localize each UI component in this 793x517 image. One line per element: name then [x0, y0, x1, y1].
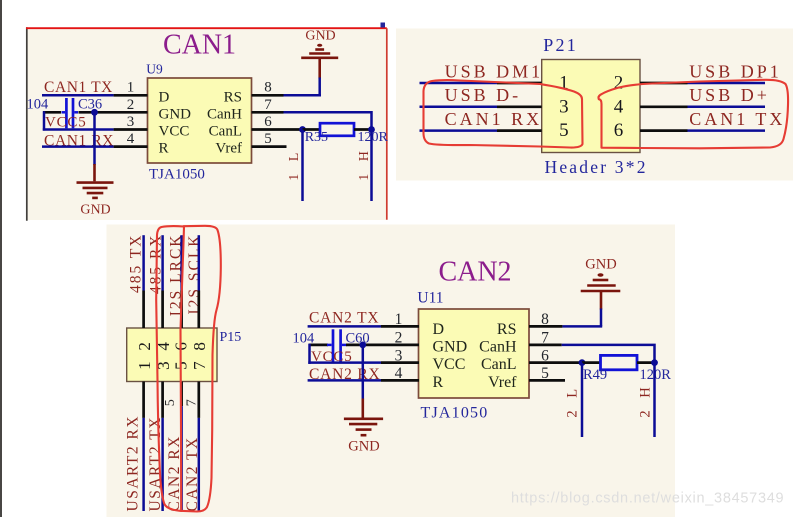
wire VCC corner vertical: [43, 111, 46, 130]
resistor R49 body: [601, 355, 638, 369]
pin 5 wire (P21): [497, 129, 542, 132]
wire 2_L vertical: [581, 363, 584, 437]
wire cap left stub (C60): [327, 344, 332, 347]
wire 485_TX vertical: [142, 235, 145, 290]
junction CanH / resistor right: [368, 126, 375, 133]
svg-text:I2S SCLK: I2S SCLK: [186, 234, 203, 315]
ground bar medium (CAN2 top): [587, 284, 616, 287]
svg-text:GND: GND: [585, 257, 616, 273]
pin wire col1 top (P15): [142, 291, 145, 329]
wire VCC corner vertical (CAN2): [308, 344, 311, 364]
wire I2S_SCLK vertical: [198, 235, 201, 290]
svg-text:3: 3: [559, 96, 569, 117]
svg-text:GND: GND: [433, 339, 468, 356]
connector P15 body: [127, 328, 217, 382]
red annotation loop right (P21 pins 4,6 and labels USB_D+, CAN1_TX): [598, 80, 788, 149]
pin 1 wire: [114, 94, 148, 97]
pin 4 wire: [114, 145, 148, 148]
svg-text:VCC: VCC: [433, 356, 466, 373]
wire 485_RX vertical: [161, 235, 164, 290]
capacitor C36 left plate: [65, 98, 68, 128]
ground bar medium (top): [309, 52, 330, 55]
ground bar 3 (CAN2): [356, 428, 372, 431]
svg-text:R35: R35: [305, 130, 328, 145]
pin 4 wire (U11): [381, 379, 419, 382]
wire CanH net (CAN2): [562, 345, 655, 363]
IC U9 TJA1050 body: [148, 78, 252, 163]
pin 6 wire CanL: [252, 128, 303, 131]
svg-text:CanH: CanH: [479, 339, 517, 356]
svg-text:5: 5: [163, 399, 178, 406]
ground bar 4: [92, 197, 98, 200]
ground bar wide (top): [301, 56, 338, 59]
pin 8 wire (U11): [529, 325, 562, 328]
wire 1_H vertical: [370, 130, 373, 202]
bottom fragment background: [107, 225, 676, 517]
resistor R49 left pin: [582, 361, 601, 364]
svg-text:7: 7: [190, 361, 209, 370]
svg-text:R: R: [433, 374, 444, 391]
wire ground to pin 8 vertical: [318, 78, 321, 96]
pin wire col2 bottom (P15): [161, 382, 164, 418]
wire GND net to pin 2 left part (U11): [309, 344, 328, 347]
pin 8 wire: [252, 94, 284, 97]
wire ground to pin 8 horizontal: [284, 94, 322, 97]
svg-text:GND: GND: [348, 438, 379, 454]
svg-text:3: 3: [127, 114, 135, 130]
ground dot (CAN2 top, inverted symbol): [598, 273, 604, 276]
capacitor C60 right plate: [339, 329, 342, 361]
svg-text:1 L: 1 L: [287, 148, 302, 181]
wire USB_D+: [688, 106, 766, 109]
svg-text:P15: P15: [220, 330, 242, 345]
svg-text:USB D+: USB D+: [689, 85, 770, 105]
pin 4 wire (P21): [640, 105, 688, 108]
svg-text:U9: U9: [146, 62, 163, 77]
wire CAN1_TX (P21): [688, 129, 766, 132]
CAN1 selection box red top border: [26, 27, 387, 29]
svg-text:Vref: Vref: [215, 141, 242, 157]
ground dot (CAN1 top, inverted symbol): [317, 44, 322, 47]
svg-text:8: 8: [190, 342, 209, 351]
svg-text:CAN1: CAN1: [163, 30, 236, 61]
ground stem (CAN2 top): [600, 292, 603, 310]
CAN1 fragment background: [28, 29, 387, 220]
svg-text:R49: R49: [583, 367, 607, 383]
svg-text:D: D: [433, 321, 445, 338]
svg-text:USART2 RX: USART2 RX: [124, 415, 141, 512]
svg-text:U11: U11: [417, 290, 443, 307]
svg-text:CAN2 TX: CAN2 TX: [309, 309, 379, 326]
IC U11 TJA1050 body: [419, 309, 530, 398]
svg-text:7: 7: [185, 399, 200, 406]
svg-text:5: 5: [559, 120, 569, 141]
ground bar small (CAN2 top): [593, 279, 609, 282]
pin 3 wire: [114, 128, 148, 131]
wire 2_H vertical: [653, 363, 656, 437]
wire ground to pin 8 vertical (CAN2): [600, 309, 603, 327]
svg-text:P21: P21: [543, 35, 578, 55]
wire CAN2_TX vertical (P15): [198, 418, 201, 511]
svg-text:D: D: [159, 89, 170, 105]
pin 1 wire (U11): [381, 325, 419, 328]
CAN1 selection box left border: [26, 27, 28, 221]
svg-text:7: 7: [264, 97, 272, 113]
svg-text:2: 2: [127, 97, 135, 113]
svg-text:Header 3*2: Header 3*2: [545, 157, 648, 177]
svg-text:RS: RS: [224, 89, 242, 105]
svg-text:5: 5: [264, 131, 272, 147]
ground bar wide (CAN2 top): [581, 290, 621, 293]
svg-text:4: 4: [127, 131, 135, 147]
svg-text:CanL: CanL: [209, 124, 242, 140]
pin 3 wire (P21): [497, 105, 542, 108]
pin 7 wire CanH: [252, 111, 284, 114]
wire CanH net: [284, 112, 372, 129]
ground stem (CAN1 bottom): [93, 164, 96, 181]
wire USB_D-: [420, 106, 498, 109]
svg-text:USB DP1: USB DP1: [689, 61, 782, 81]
resistor R35 right pin: [354, 128, 372, 131]
svg-text:RS: RS: [497, 321, 517, 338]
junction CanL / resistor left: [299, 126, 306, 133]
svg-text:CAN1 TX: CAN1 TX: [689, 109, 785, 129]
svg-text:6: 6: [614, 120, 624, 141]
wire CAN1_RX net: [42, 145, 114, 148]
pin wire col2 top (P15): [161, 291, 164, 329]
wire VCC net row3: [43, 128, 114, 131]
wire junction down to ground: [93, 112, 96, 165]
svg-text:USB DM1: USB DM1: [445, 61, 544, 81]
ground stem (CAN2 bottom): [361, 399, 364, 418]
wire ground to pin 8 horizontal (CAN2): [562, 325, 602, 328]
pin 5 wire Vref stub (U11): [529, 379, 565, 382]
svg-text:CAN2: CAN2: [438, 257, 511, 288]
svg-text:C36: C36: [78, 97, 102, 113]
svg-text:4: 4: [614, 96, 624, 117]
CAN1 selection box red right border: [386, 28, 388, 220]
svg-text:CAN1 RX: CAN1 RX: [445, 109, 543, 129]
pin 6 wire (P21): [640, 129, 688, 132]
wire USART2_TX vertical: [161, 418, 164, 511]
svg-text:2 L: 2 L: [565, 384, 581, 417]
pin wire col3 top (P15): [180, 291, 183, 329]
pin 7 wire CanH (U11): [529, 344, 562, 347]
svg-text:GND: GND: [159, 106, 192, 122]
wire CAN2_RX net: [308, 379, 381, 382]
wire GND net to pin 2 left part: [43, 111, 61, 114]
svg-text:8: 8: [264, 80, 272, 96]
pin 6 wire CanL (U11): [529, 361, 582, 364]
junction CanL / resistor left (CAN2): [579, 359, 586, 366]
capacitor C60 left plate: [332, 329, 335, 361]
ground bar 4 (CAN2): [361, 434, 367, 437]
red annotation inner stroke (P15 hugging column 3): [181, 227, 185, 512]
svg-text:VCC5: VCC5: [45, 115, 87, 131]
blue artifact top-right of CAN1 box: [381, 23, 386, 28]
wire USB_DP1: [688, 82, 766, 85]
svg-text:2: 2: [614, 73, 624, 94]
connector P21 body: [542, 60, 640, 153]
wire VCC net row3 (CAN2): [308, 361, 381, 364]
svg-text:TJA1050: TJA1050: [421, 405, 489, 422]
pin wire col1 bottom (P15): [142, 382, 145, 418]
svg-text:1: 1: [127, 80, 135, 96]
pin 2 wire (P21): [640, 82, 688, 85]
resistor R35 left pin: [303, 128, 321, 131]
pin 5 wire Vref stub: [252, 145, 287, 148]
wire pin 2 to junction: [79, 111, 148, 114]
pin wire col3 bottom (P15): [180, 382, 183, 407]
junction on GND net: [91, 109, 98, 116]
screenshot left border: [0, 0, 2, 517]
wire cap left stub: [62, 111, 66, 114]
wire CAN2_TX net: [308, 325, 381, 328]
wire pin 2 to junction (U11): [346, 344, 419, 347]
ground bar 1 (CAN2): [344, 417, 383, 420]
wire CAN2_RX vertical (P15): [180, 406, 183, 511]
ground bar 2: [83, 187, 108, 190]
P21 fragment background: [396, 29, 793, 181]
wire junction down to ground (CAN2): [362, 345, 365, 400]
resistor R49 right pin: [637, 361, 655, 364]
ground bar small (top): [315, 48, 324, 51]
svg-text:VCC: VCC: [159, 124, 190, 140]
svg-text:CAN1 TX: CAN1 TX: [44, 79, 113, 96]
svg-text:https://blog.csdn.net/weixin_3: https://blog.csdn.net/weixin_38457349: [511, 491, 784, 507]
wire I2S_LRCK vertical: [180, 235, 183, 290]
svg-text:CanL: CanL: [481, 356, 517, 373]
svg-text:104: 104: [27, 97, 50, 113]
svg-text:485 TX: 485 TX: [128, 234, 145, 294]
wire USB_DM1: [420, 82, 498, 85]
pin wire col4 top (P15): [197, 291, 200, 329]
pin 1 wire (P21): [497, 82, 542, 85]
pin 3 wire (U11): [381, 361, 419, 364]
resistor R35 body: [320, 123, 354, 136]
svg-text:1 H: 1 H: [357, 147, 372, 181]
svg-text:6: 6: [264, 114, 272, 130]
svg-text:120R: 120R: [358, 130, 389, 145]
wire CAN1_RX (P21): [420, 129, 498, 132]
junction on GND net (U11): [359, 342, 366, 349]
wire cap right stub (C60): [342, 344, 347, 347]
wire CAN1_TX net: [42, 94, 114, 97]
svg-text:GND: GND: [80, 202, 110, 217]
svg-text:CanH: CanH: [207, 106, 242, 122]
wire USART2_RX vertical: [142, 418, 145, 511]
wire 1_L vertical: [301, 130, 304, 202]
svg-text:GND: GND: [305, 29, 335, 44]
ground stem (CAN1 top): [318, 59, 321, 79]
svg-text:1: 1: [135, 361, 154, 370]
red annotation loop left (P21 pins 3,5 and labels USB_D-, CAN1_RX): [423, 80, 582, 147]
red annotation tall loop (P15 columns 3-4): [156, 226, 221, 512]
svg-text:2: 2: [135, 342, 154, 351]
svg-text:CAN2 TX: CAN2 TX: [184, 436, 201, 511]
ground bar 3: [87, 192, 104, 195]
ground bar 1: [77, 181, 114, 184]
capacitor C36 right plate: [72, 98, 75, 128]
svg-text:Vref: Vref: [488, 374, 517, 391]
svg-text:TJA1050: TJA1050: [149, 167, 205, 183]
pin wire col4 bottom (P15): [197, 382, 200, 418]
svg-text:USART2 TX: USART2 TX: [147, 416, 164, 511]
wire cap right stub: [74, 111, 78, 114]
ground bar 2 (CAN2): [349, 423, 377, 426]
junction CanH / resistor right (CAN2): [651, 359, 658, 366]
svg-text:R: R: [159, 141, 169, 157]
svg-text:2 H: 2 H: [638, 383, 654, 418]
svg-text:USB D-: USB D-: [445, 85, 522, 105]
